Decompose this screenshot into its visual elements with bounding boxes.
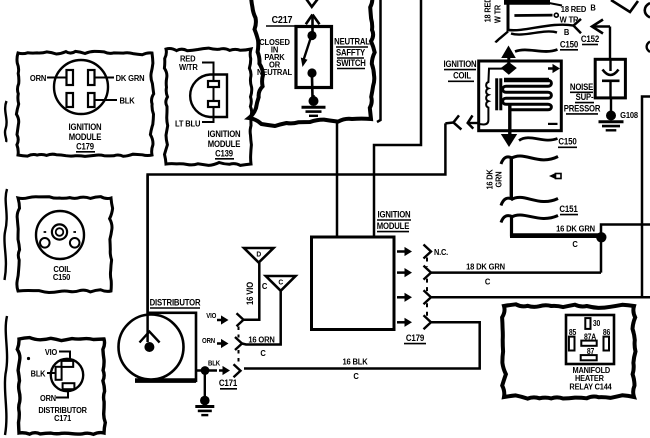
- connector C152 arrow: [592, 20, 610, 34]
- label 16 VIO (rotated): [246, 281, 256, 305]
- label N.C.: [434, 248, 448, 258]
- distributor bottom thick edge: [135, 378, 196, 383]
- callout border (neutral safety switch): [249, 0, 375, 126]
- lead BLK: [95, 99, 118, 101]
- connector C179 arrow row1: [397, 247, 412, 256]
- label LT BLU: [175, 119, 201, 129]
- svg-text:IGNITION: IGNITION: [208, 130, 241, 140]
- speck: [27, 357, 30, 360]
- connector C179 arrow row4: [397, 318, 412, 327]
- svg-text:PRESSOR: PRESSOR: [564, 104, 601, 114]
- label CLOSED IN PARK OR NEUTRAL: [257, 38, 292, 78]
- dash (coil bottom right): [548, 123, 558, 125]
- switch ground wire: [311, 77, 314, 97]
- coil terminal (right): [70, 238, 80, 248]
- label C (16 BLK): [353, 372, 359, 382]
- svg-text:VIO: VIO: [206, 312, 217, 320]
- connector C171 fork BLK: [234, 364, 241, 377]
- label IGNITION COIL: [444, 59, 477, 81]
- capacitor (inside suppressor): [602, 59, 620, 98]
- pin (upper): [208, 81, 219, 87]
- svg-text:BLK: BLK: [31, 369, 46, 379]
- label ORN (callout): [40, 394, 56, 404]
- lead ORN: [56, 389, 68, 397]
- distributor body rect: [149, 313, 196, 381]
- svg-text:C: C: [572, 240, 578, 250]
- small connector symbol: [549, 173, 561, 179]
- svg-text:C: C: [262, 282, 268, 292]
- svg-text:COIL: COIL: [453, 71, 471, 81]
- label ORN: [202, 337, 215, 345]
- svg-text:18 RED: 18 RED: [483, 0, 493, 22]
- label 87A: [584, 332, 597, 342]
- lead DK GRN: [95, 77, 115, 79]
- svg-text:C171: C171: [54, 413, 72, 423]
- svg-text:C217: C217: [272, 15, 293, 27]
- distributor connector circle: [51, 359, 83, 391]
- wire 16 DK GRN segment: [510, 159, 513, 200]
- junction dot: [596, 232, 606, 242]
- pin (lower): [208, 101, 219, 107]
- wire (long horizontal to distributor): [148, 123, 446, 342]
- svg-text:C150: C150: [53, 273, 71, 283]
- label COIL C150: [53, 265, 71, 283]
- svg-text:SWITCH: SWITCH: [336, 59, 366, 69]
- label 18 RED: [561, 5, 587, 15]
- tick marks: [44, 231, 76, 233]
- wire (C152 to suppressor): [609, 27, 611, 60]
- svg-text:18 DK GRN: 18 DK GRN: [466, 262, 505, 272]
- connector C179 arrow row2: [397, 268, 412, 277]
- svg-text:B: B: [564, 27, 570, 37]
- label DISTRIBUTOR C171: [38, 405, 87, 423]
- label 18 DK GRN: [466, 262, 505, 272]
- svg-text:C151: C151: [559, 204, 578, 215]
- label 16 ORN: [248, 335, 275, 345]
- label DISTRIBUTOR: [150, 298, 201, 308]
- label 18 RED W TR (rotated): [483, 0, 503, 23]
- wire (from top to callout, x380): [377, 0, 381, 122]
- svg-text:VIO: VIO: [45, 348, 57, 358]
- connector C217 fork (cut at top): [306, 0, 319, 7]
- torn edge fragment (right 2): [647, 42, 650, 53]
- label G108: [620, 111, 638, 121]
- stub BLK with junction: [196, 369, 217, 372]
- torn edge fragment (right 1): [645, 3, 650, 18]
- wire (from top to ignition module, x421): [374, 0, 421, 237]
- svg-text:16 DK GRN: 16 DK GRN: [556, 224, 595, 234]
- connector C179 fork row1: [424, 245, 432, 259]
- wire (to junction dot): [512, 217, 601, 236]
- svg-text:C139: C139: [215, 149, 233, 159]
- label NEUTRAL SAFFTY SWITCH: [334, 37, 370, 68]
- label 16 BLK: [342, 357, 367, 367]
- label 85: [569, 328, 576, 338]
- svg-text:IGNITION: IGNITION: [69, 123, 102, 133]
- connector C179 fork row3: [424, 290, 432, 304]
- callout border (ignition module C179 view): [16, 51, 153, 156]
- dashed link C171 forks: [238, 327, 240, 365]
- label C (16 DK GRN): [572, 240, 578, 250]
- label C171 (connector): [219, 378, 238, 389]
- svg-text:BLK: BLK: [208, 360, 220, 368]
- label IGNITION MODULE C139: [208, 130, 241, 159]
- pin (bottom-left): [67, 93, 74, 107]
- label C (18 DK GRN): [485, 277, 491, 287]
- svg-text:N.C.: N.C.: [434, 248, 448, 258]
- coil core: [497, 78, 501, 110]
- pin 86: [604, 337, 610, 351]
- svg-text:MODULE: MODULE: [208, 140, 241, 150]
- callout border (manifold heater relay): [502, 304, 635, 398]
- connector C150 down-arrow: [501, 134, 517, 147]
- coil secondary winding: [503, 80, 552, 110]
- wire cut (wavy mid): [511, 197, 558, 201]
- label DK GRN: [116, 74, 145, 84]
- arrowhead into coil (diamond): [501, 62, 517, 75]
- svg-text:C150: C150: [558, 136, 577, 147]
- switch contact (upper): [307, 31, 316, 40]
- distributor center dot: [144, 342, 154, 352]
- torn edge fragment (top right): [611, 0, 638, 12]
- connector C171 fork VIO: [237, 313, 244, 326]
- svg-text:LT BLU: LT BLU: [175, 119, 201, 129]
- label C217: [266, 15, 298, 27]
- connector C171 arrow ORN: [217, 339, 229, 348]
- svg-text:NEUTRAL: NEUTRAL: [334, 37, 370, 47]
- label NOISE SUP-PRESSOR: [564, 82, 601, 114]
- connector C217 arrow: [306, 15, 320, 34]
- svg-text:BLK: BLK: [119, 96, 134, 106]
- relay face square: [566, 315, 614, 364]
- lead (triangle D): [244, 263, 260, 320]
- triangle connector D: [244, 248, 274, 263]
- svg-text:87A: 87A: [584, 332, 597, 342]
- connector C150 up-arrow: [501, 46, 516, 67]
- noise suppressor box: [595, 59, 625, 98]
- coil terminal (left): [40, 238, 50, 248]
- torn edge fragment (left 3): [5, 316, 7, 435]
- wire into distributor: [146, 175, 149, 343]
- connector C179 fork row2: [424, 266, 432, 280]
- ignition coil box: [479, 61, 562, 131]
- label C150 (bottom): [558, 136, 577, 147]
- switch contact (lower): [307, 68, 316, 77]
- svg-text:16 VIO: 16 VIO: [246, 281, 256, 305]
- junction dot (BLK): [201, 366, 210, 375]
- wire (supply vertical x508): [507, 3, 510, 32]
- connector fork (coil feed): [445, 115, 461, 129]
- connector C171 arrow BLK: [219, 366, 230, 375]
- label C (16 ORN): [260, 349, 266, 359]
- callout border (distributor C171 view): [17, 338, 105, 435]
- label IGNITION MODULE C179: [69, 123, 102, 152]
- svg-text:G108: G108: [620, 111, 638, 121]
- svg-text:ORN: ORN: [202, 337, 215, 345]
- wire (dot to 16 DK GRN): [512, 232, 598, 237]
- svg-text:C152: C152: [581, 34, 600, 45]
- label RED W/TR: [179, 54, 198, 72]
- svg-text:30: 30: [593, 318, 600, 328]
- svg-text:ORN: ORN: [40, 394, 56, 404]
- svg-text:DISTRIBUTOR: DISTRIBUTOR: [150, 298, 201, 308]
- pin 85: [569, 337, 575, 351]
- neutral safety switch box: [296, 27, 332, 88]
- ignition module box: [312, 237, 395, 330]
- svg-text:16 ORN: 16 ORN: [248, 335, 275, 345]
- label BLK: [208, 360, 220, 368]
- pin (bottom-right): [88, 93, 95, 107]
- wire row2 (18 DK GRN): [431, 271, 601, 274]
- pin ORN: [63, 383, 75, 389]
- svg-text:C171: C171: [219, 378, 238, 389]
- label 86: [603, 328, 610, 338]
- pin 30: [585, 318, 590, 329]
- label C150 (top): [560, 39, 579, 50]
- label VIO (callout): [45, 348, 57, 358]
- svg-text:MODULE: MODULE: [377, 222, 410, 232]
- wire (right edge to x642): [642, 97, 650, 298]
- connector C171 fork ORN: [235, 337, 242, 350]
- svg-text:IGNITION: IGNITION: [378, 210, 411, 220]
- svg-text:B: B: [590, 3, 596, 13]
- svg-text:86: 86: [603, 328, 610, 338]
- thick supply bar (top edge): [504, 2, 562, 6]
- wire cut (flick mid): [501, 198, 513, 205]
- callout border (ignition module C139 view): [164, 48, 251, 165]
- svg-text:C: C: [278, 278, 283, 286]
- label BLK (callout): [31, 369, 46, 379]
- svg-text:W/TR: W/TR: [179, 63, 198, 73]
- wire (wavy to C152): [509, 25, 574, 31]
- label VIO: [206, 312, 217, 320]
- svg-text:GRN: GRN: [494, 171, 504, 187]
- wire cut (flick top): [501, 157, 513, 164]
- svg-text:16 BLK: 16 BLK: [342, 357, 367, 367]
- needle wire 18 RED W/TR: [514, 13, 558, 17]
- wire (wavy stub B): [511, 31, 557, 34]
- wire cut (wavy top): [511, 156, 558, 160]
- svg-text:C: C: [353, 372, 359, 382]
- label 16 DK GRN (rotated): [485, 169, 504, 190]
- torn edge fragment (left 1): [5, 101, 7, 142]
- svg-text:IGNITION: IGNITION: [444, 59, 477, 69]
- label 30: [593, 318, 600, 328]
- small arrow (coil top right): [548, 64, 560, 73]
- connector C152 fork: [574, 19, 582, 33]
- arrowhead on distributor wire: [140, 332, 160, 343]
- label C (16 VIO): [262, 282, 268, 292]
- connector C171 arrow VIO: [217, 315, 229, 324]
- label IGNITION MODULE: [377, 210, 411, 232]
- svg-text:C: C: [260, 349, 266, 359]
- svg-text:85: 85: [569, 328, 576, 338]
- coil top view circle: [36, 211, 84, 259]
- callout border (coil C150 view): [17, 197, 113, 293]
- connector circle C179: [54, 60, 108, 114]
- connector D-shape C139: [190, 75, 227, 118]
- svg-text:C179: C179: [76, 142, 94, 152]
- connector C179 arrow row3: [397, 293, 412, 302]
- wire (corner to right edge y224): [601, 225, 650, 273]
- pin (top-right): [88, 70, 95, 85]
- label C179 (module): [404, 333, 426, 344]
- svg-text:SAFFTY: SAFFTY: [336, 48, 366, 58]
- triangle connector C: [266, 276, 296, 291]
- coil center tower: [52, 224, 67, 239]
- svg-text:C179: C179: [406, 333, 425, 344]
- label B (lower): [564, 27, 570, 37]
- wire cut (wavy low): [511, 215, 558, 219]
- wire (wavy C150 bottom): [519, 138, 558, 141]
- svg-text:SUP-: SUP-: [576, 93, 594, 103]
- svg-text:MODULE: MODULE: [69, 133, 102, 143]
- distributor circle: [119, 315, 184, 380]
- lead VIO: [59, 352, 70, 361]
- connector arrow (coil feed): [468, 115, 479, 128]
- label ORN: [30, 74, 47, 84]
- wire (wavy C150 top): [515, 50, 558, 52]
- pin BLK: [56, 367, 62, 380]
- wire row3 (to right edge): [431, 296, 650, 299]
- wire (stub down-left): [496, 32, 509, 43]
- label BLK: [119, 96, 134, 106]
- label 16 DK GRN: [556, 224, 595, 234]
- svg-text:18 RED: 18 RED: [561, 5, 587, 15]
- label B (upper): [590, 3, 596, 13]
- lead ORN: [47, 77, 67, 79]
- pin VIO: [62, 361, 74, 367]
- label W TR: [560, 15, 579, 25]
- pin link: [213, 87, 215, 101]
- coil HT tower wire: [508, 104, 511, 134]
- svg-text:C: C: [485, 277, 491, 287]
- pin 87: [581, 355, 597, 360]
- wire cut (flick low): [501, 216, 513, 223]
- label C151: [559, 204, 578, 215]
- dashed link C179 forks: [426, 258, 428, 317]
- pin 87A: [581, 341, 596, 346]
- ground (below switch): [302, 95, 326, 116]
- lead BLK: [47, 372, 56, 374]
- connector C179 fork row4: [424, 315, 432, 329]
- svg-text:NEUTRAL: NEUTRAL: [257, 68, 292, 78]
- lead RED W/TR: [202, 63, 214, 82]
- svg-text:RELAY C144: RELAY C144: [569, 382, 612, 392]
- coil primary winding: [479, 69, 505, 125]
- svg-text:87: 87: [587, 347, 594, 357]
- svg-text:D: D: [256, 250, 261, 258]
- wire row4 (16 BLK up leg): [244, 322, 480, 368]
- ground G108: [599, 98, 624, 130]
- label 87: [587, 347, 594, 357]
- svg-text:C150: C150: [560, 39, 579, 50]
- svg-text:ORN: ORN: [30, 74, 47, 84]
- switch blade: [301, 37, 311, 67]
- pin (top-left): [67, 70, 74, 85]
- ground (distributor): [195, 372, 214, 415]
- wire (safety switch to ignition module, x337): [336, 123, 339, 237]
- torn edge fragment (left 2): [4, 189, 7, 280]
- label MANIFOLD HEATER RELAY C144: [569, 365, 612, 391]
- svg-text:NOISE: NOISE: [570, 82, 594, 92]
- svg-text:W TR: W TR: [493, 4, 503, 23]
- svg-text:DK GRN: DK GRN: [116, 74, 145, 84]
- lead (triangle C): [242, 291, 281, 345]
- label C152: [581, 34, 600, 45]
- lead LT BLU: [202, 107, 214, 122]
